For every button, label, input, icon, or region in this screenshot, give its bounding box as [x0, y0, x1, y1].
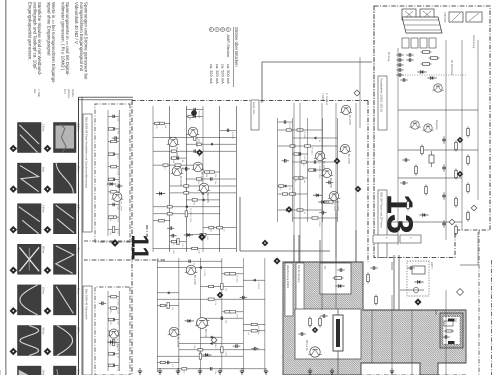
test point diamond TP-B1	[10, 145, 17, 152]
output transistor T312	[195, 318, 209, 338]
module ground G5	[390, 368, 394, 374]
tuner supply capacitor C2069	[396, 53, 403, 67]
test point diamond TP-A4	[44, 267, 51, 274]
svg-text:470: 470	[155, 125, 157, 129]
oscillogram label B6	[42, 327, 46, 335]
svg-text:22n: 22n	[116, 321, 118, 325]
svg-text:10k: 10k	[198, 250, 200, 254]
oscillogram label A5	[77, 288, 81, 294]
sync separator cluster	[278, 118, 338, 227]
svg-text:L0877: L0877	[430, 262, 433, 269]
module cavity resistor R878	[309, 317, 312, 328]
svg-text:BC 237B: BC 237B	[119, 202, 121, 211]
sync transistor T303	[339, 144, 351, 164]
IF resistor R2087	[425, 185, 428, 196]
module feed wire 2	[335, 210, 337, 262]
sub-block divider corner	[146, 225, 148, 237]
main block caption strip	[251, 100, 259, 130]
svg-text:2,2k: 2,2k	[116, 310, 118, 315]
svg-text:Videoinhalt 40 ND / V: Videoinhalt 40 ND / V	[74, 2, 79, 44]
module border dash right	[283, 374, 466, 375]
svg-text:C 2115: C 2115	[116, 298, 118, 306]
module resistor R881	[375, 295, 378, 306]
tuner filter capacitor C2070	[406, 53, 413, 62]
svg-text:voltmeter gemessen. ( Ri ≥ 10: voltmeter gemessen. ( Ri ≥ 10MΩ )	[60, 2, 65, 71]
svg-text:ZF 38,9 MHz: ZF 38,9 MHz	[450, 60, 454, 76]
svg-text:22n: 22n	[109, 310, 111, 314]
IF ladder resistor R2075	[455, 197, 458, 208]
oscillogram label B4	[42, 246, 46, 254]
tuner label Abst	[472, 35, 475, 49]
bridge currents text block	[209, 27, 239, 87]
oscillogram photo B7	[18, 366, 42, 375]
IF module shielded housing	[283, 262, 466, 375]
white diamond TP42	[457, 289, 464, 296]
svg-text:R 2114: R 2114	[116, 168, 118, 176]
svg-text:signal ohne Eingangssignal: signal ohne Eingangssignal	[46, 2, 51, 55]
module transistor T877	[305, 340, 322, 357]
video amp diamond TP35	[197, 150, 203, 156]
ground G10	[308, 368, 312, 374]
main block left border	[132, 100, 368, 102]
left column block top double border a	[79, 96, 134, 98]
left lower block frame B	[95, 287, 130, 375]
svg-text:10k: 10k	[225, 320, 227, 324]
oscillogram label A4	[77, 248, 81, 254]
oscillogram label B2	[42, 166, 46, 172]
oscillogram label A1	[77, 124, 81, 133]
caption strip right	[83, 286, 92, 375]
svg-text:1n: 1n	[257, 332, 259, 335]
video amp transistor T309	[192, 162, 205, 182]
module crossing wire f	[337, 359, 339, 375]
svg-text:10k: 10k	[116, 118, 118, 122]
module wire b	[391, 295, 393, 375]
tuner vertical wire d	[388, 221, 462, 223]
svg-text:Spannungswerte in ▭ und mit Di: Spannungswerte in ▭ und mit Digital-	[65, 2, 70, 76]
module service box A	[320, 263, 351, 294]
oscillogram photo B6	[18, 326, 42, 356]
svg-text:R 2114: R 2114	[310, 148, 312, 156]
module cavity resistor R877	[319, 317, 322, 328]
IF transistor T2062	[409, 121, 420, 129]
svg-text:BC 307B: BC 307B	[179, 176, 182, 186]
module filter FL877	[333, 309, 343, 359]
svg-text:2,5Vss: 2,5Vss	[42, 124, 46, 133]
svg-text:R 2181: R 2181	[333, 204, 335, 212]
svg-text:ca. 500 mA: ca. 500 mA	[226, 64, 231, 84]
tuner extra caps	[396, 68, 407, 82]
output transistor T311	[185, 265, 198, 285]
oscillogram photo B3	[18, 204, 42, 234]
svg-text:BC 237B: BC 237B	[348, 115, 351, 125]
tuner unit box	[402, 17, 442, 33]
tuner resistor R2062	[421, 63, 432, 66]
svg-text:0,1: 0,1	[171, 307, 173, 311]
oscillogram photo A7	[54, 366, 77, 375]
tuner diode V2060	[417, 70, 426, 74]
oscillogram photo B2	[18, 163, 42, 193]
svg-text:0,1: 0,1	[116, 156, 118, 160]
long wire IF feed	[321, 103, 323, 310]
svg-text:0,1: 0,1	[116, 219, 118, 223]
svg-text:BC 237B: BC 237B	[347, 154, 350, 164]
svg-text:C 2115: C 2115	[203, 269, 205, 277]
svg-text:2,2k: 2,2k	[116, 367, 118, 372]
test point diamond TP-B6	[10, 348, 17, 355]
IF resistor R2086	[415, 165, 418, 176]
svg-text:1k: 1k	[294, 180, 296, 183]
svg-text:22n: 22n	[197, 181, 199, 185]
tuner resistor R2060	[421, 51, 432, 54]
video amp transistor T308	[171, 166, 184, 186]
module feed wire 3	[319, 240, 321, 262]
svg-text:Werte in ▭ bei normgerechtem: Werte in ▭ bei normgerechtem Eingangs-	[51, 2, 56, 84]
svg-text:1k: 1k	[109, 219, 111, 222]
tuner caption strip	[378, 76, 387, 130]
oscillogram photo A2	[54, 163, 77, 193]
wire L bend right	[460, 232, 478, 265]
tuner block frame	[374, 6, 490, 258]
IF capacitor C2089	[402, 158, 409, 162]
long wire video feed pair a	[299, 103, 301, 262]
schematic border line outer	[78, 97, 80, 375]
svg-text:MP1-4,3A: MP1-4,3A	[305, 340, 308, 351]
svg-text:C 2163: C 2163	[257, 282, 259, 290]
module crossing wire g	[411, 310, 413, 375]
tuner resistor R2061	[429, 57, 440, 60]
IF test diamond TP13a	[457, 137, 463, 143]
alignment box 2	[400, 235, 421, 243]
oscillogram label A2	[77, 166, 81, 172]
svg-text:Bild 204 Tuner und ZF-Verst.: Bild 204 Tuner und ZF-Verst.	[380, 193, 384, 229]
left column block top double border b	[79, 99, 134, 101]
ground G1	[158, 368, 162, 374]
module feed wire 1	[355, 230, 357, 262]
interconnect wire video	[240, 197, 330, 251]
left lower cluster B	[99, 291, 120, 372]
tuner wire bus 2	[461, 40, 463, 230]
oscillogram label B7	[42, 369, 46, 375]
white diamond TP43	[354, 90, 360, 96]
tuner vertical wire a	[398, 109, 478, 111]
svg-text:BC 237B: BC 237B	[176, 337, 179, 347]
left lower cluster A	[107, 110, 124, 236]
output transistor T313	[168, 327, 181, 347]
tuner wire bus 4	[397, 48, 399, 245]
tuner vertical wire c	[398, 177, 462, 179]
output diamond TP38	[211, 337, 217, 343]
module resistor R880	[367, 273, 370, 284]
svg-text:100: 100	[116, 206, 118, 210]
video amp transistor T307	[167, 137, 180, 157]
oscillogram label B5	[42, 287, 46, 295]
sync diamond TP31	[334, 158, 340, 164]
oscillogram photo B4	[18, 244, 42, 274]
svg-text:22n: 22n	[193, 345, 195, 349]
module box D	[440, 313, 463, 348]
interconnect wire to tuner	[262, 62, 372, 103]
main block bottom border	[131, 101, 133, 375]
svg-text:470: 470	[214, 174, 216, 178]
test point diamond TP-A3	[44, 226, 51, 233]
tuner ladder diamond TP13c	[457, 171, 463, 177]
video amp transistor T310	[198, 183, 211, 203]
svg-text:BC 237B: BC 237B	[336, 201, 339, 211]
IF ladder resistor R2070	[467, 127, 470, 138]
svg-text:11: 11	[126, 235, 153, 260]
IF ladder resistor R2077	[455, 225, 458, 236]
module box D coil L878	[444, 321, 453, 326]
tuner label AFC	[450, 60, 454, 76]
module L0877 assembly	[407, 261, 433, 296]
svg-text:0,1: 0,1	[171, 364, 173, 368]
svg-text:1Vss: 1Vss	[42, 166, 46, 172]
svg-text:Kanalwähler 29301-102.01: Kanalwähler 29301-102.01	[380, 79, 384, 113]
module capacitor C880	[407, 266, 414, 270]
svg-text:22n: 22n	[109, 231, 111, 235]
svg-text:10k: 10k	[303, 180, 305, 184]
oscillogram photo B1	[18, 123, 42, 153]
ground G9	[330, 368, 334, 374]
svg-text:4,7k: 4,7k	[214, 301, 216, 306]
ground G2	[198, 368, 202, 374]
tuner label UHF	[443, 12, 446, 23]
svg-text:n. Halb-: n. Halb-	[37, 89, 40, 98]
svg-text:BDY 40: BDY 40	[204, 329, 207, 338]
oscillogram label A3	[77, 205, 81, 214]
tuner transistor T2060	[432, 84, 443, 92]
svg-text:4,7k: 4,7k	[236, 313, 238, 318]
svg-text:100: 100	[172, 250, 174, 254]
IF diode V2063	[419, 213, 428, 217]
antenna connector box X2	[402, 9, 416, 20]
oscillogram photo B5	[18, 285, 42, 315]
svg-text:1Vss: 1Vss	[42, 369, 46, 375]
oscillogram label B1	[42, 124, 46, 133]
svg-text:4,7: 4,7	[182, 370, 184, 374]
svg-text:1k: 1k	[172, 243, 174, 246]
svg-text:Oszillo-: Oszillo-	[71, 89, 74, 98]
video amp cluster	[153, 106, 236, 255]
module inner strip B	[296, 263, 304, 317]
IF resistor R2085	[421, 145, 424, 156]
sheet number 13	[380, 194, 421, 234]
svg-text:10:1: 10:1	[63, 89, 66, 94]
test point diamond TP-B3	[10, 226, 17, 233]
svg-text:C 2115: C 2115	[318, 172, 320, 180]
svg-text:R 2181: R 2181	[231, 132, 233, 140]
remote label	[321, 93, 328, 106]
module crossing wire e	[335, 262, 337, 309]
svg-text:B: B	[220, 29, 224, 31]
output diamond TP37	[217, 292, 223, 298]
module cavity capacitor C877	[320, 314, 327, 318]
tuner label AGC	[435, 120, 439, 131]
svg-text:T 2069: T 2069	[321, 93, 323, 101]
ground G3	[176, 368, 180, 374]
svg-text:0,1: 0,1	[247, 332, 249, 336]
test point diamond TP-A5	[44, 308, 51, 315]
tuner ladder diamond TP13d	[449, 219, 455, 225]
oscillogram photo A5	[54, 285, 77, 315]
svg-text:Spannungen und Ströme gemessen: Spannungen und Ströme gemessen bei	[84, 2, 89, 79]
IF ladder capacitor C2084	[442, 220, 446, 227]
svg-text:22n: 22n	[214, 181, 216, 185]
interconnect wire module left a	[298, 235, 300, 263]
svg-text:ca. 520 mA: ca. 520 mA	[220, 64, 225, 84]
svg-text:C 2163: C 2163	[318, 220, 320, 228]
box D black bar 2	[448, 341, 455, 344]
svg-text:100: 100	[177, 358, 179, 362]
svg-text:100: 100	[116, 131, 118, 135]
IF ladder capacitor C2081	[442, 136, 446, 143]
IF transistor T2063	[422, 124, 433, 132]
test point diamond TP-A6	[44, 348, 51, 355]
svg-text:68: 68	[181, 160, 183, 163]
tuner label IF	[387, 52, 390, 62]
page border dash corner	[491, 260, 493, 375]
IF ladder resistor R2072	[467, 155, 470, 166]
svg-text:4,7k: 4,7k	[181, 243, 183, 248]
test point diamond TP-B5	[10, 308, 17, 315]
svg-text:470: 470	[109, 321, 111, 325]
svg-text:1n: 1n	[116, 356, 118, 359]
caption strip left	[83, 114, 92, 232]
svg-text:0,1: 0,1	[279, 188, 281, 192]
ground G8	[264, 368, 268, 374]
interconnect wire module left b	[293, 235, 295, 263]
svg-text:UHF/VHF: UHF/VHF	[443, 12, 446, 23]
module corner diamond TP44	[274, 258, 280, 264]
svg-text:12Vss: 12Vss	[42, 287, 46, 295]
tuner vertical wire b	[398, 149, 478, 151]
module box D resistor R879	[444, 330, 454, 332]
oscillogram label B3	[42, 205, 46, 214]
sync transistor T305	[328, 191, 340, 211]
svg-text:Abstimmspg.: Abstimmspg.	[472, 35, 475, 49]
IF capacitor C2090	[400, 181, 407, 185]
long wire video feed pair b	[293, 103, 295, 262]
output diamond TP36	[199, 234, 206, 241]
module cavity C	[295, 309, 361, 359]
sub-block divider	[84, 259, 165, 261]
measurement notes text block	[28, 2, 89, 84]
output stage cluster	[157, 258, 265, 375]
svg-text:bild: bild	[33, 89, 36, 94]
svg-text:gramme: gramme	[67, 89, 70, 99]
sheet number 11	[126, 235, 153, 260]
svg-text:BC 307B: BC 307B	[329, 178, 332, 188]
IF ladder capacitor C2083	[442, 192, 446, 199]
svg-text:BC 237B: BC 237B	[206, 193, 209, 203]
svg-text:0,6Vss: 0,6Vss	[42, 205, 46, 214]
module label strip	[285, 263, 293, 316]
svg-text:R 2114: R 2114	[236, 275, 238, 283]
sub-block divider 2	[84, 240, 131, 242]
oscillogram strip header	[33, 89, 74, 99]
module cavity diamond TP40	[312, 327, 318, 333]
svg-text:oszillograph und Tastkopf ca.: oszillograph und Tastkopf ca. 10pF	[32, 2, 37, 70]
module wire c	[400, 289, 424, 291]
IF coil L2064	[429, 151, 434, 167]
between-block diamond TP39	[112, 240, 119, 247]
box D black bar 1	[448, 319, 455, 322]
left lower block frame A	[95, 104, 130, 242]
module diamond TP41	[415, 299, 421, 305]
svg-text:4,7: 4,7	[184, 188, 186, 192]
svg-text:10k: 10k	[172, 160, 174, 164]
svg-text:BC 238B: BC 238B	[175, 147, 178, 157]
svg-text:1n: 1n	[288, 188, 290, 191]
video amp screw point	[191, 110, 196, 115]
svg-text:30Vss: 30Vss	[42, 327, 46, 335]
page border dash right	[478, 230, 480, 375]
video amp transistor T306	[187, 127, 200, 147]
page fold line	[5, 0, 7, 375]
sync transistor T304	[321, 168, 333, 188]
sync diamond TP33	[286, 207, 292, 213]
interconnect wire V06	[398, 255, 400, 310]
ground G4	[240, 368, 244, 374]
sync transistor T302	[314, 151, 326, 171]
svg-text:4,7: 4,7	[302, 164, 304, 168]
module long wire i	[445, 290, 447, 375]
svg-text:C: C	[215, 28, 219, 30]
svg-text:Eingangskapazität gemessen.: Eingangskapazität gemessen.	[28, 2, 33, 61]
svg-text:100: 100	[205, 174, 207, 178]
tuner block lower parallel border	[373, 6, 375, 258]
IF ladder resistor R2074	[467, 183, 470, 194]
test point diamond TP-A1	[44, 145, 51, 152]
sheet 13 caption strip	[378, 190, 387, 258]
svg-text:1k: 1k	[109, 344, 111, 347]
schematic border line inner	[81, 97, 83, 375]
tuner AGC dotted line	[396, 74, 466, 76]
svg-text:0,1: 0,1	[214, 345, 216, 349]
oscillogram photo A4	[54, 244, 77, 274]
tuner wire bus 1	[477, 40, 479, 200]
svg-text:2,2k: 2,2k	[225, 351, 227, 356]
svg-text:0,1: 0,1	[225, 288, 227, 292]
AFC connector box	[466, 12, 482, 22]
svg-text:4,7: 4,7	[164, 167, 166, 171]
svg-text:100: 100	[206, 236, 208, 240]
svg-text:10k: 10k	[164, 125, 166, 129]
IF connector box row	[402, 38, 436, 48]
module wire a	[391, 262, 393, 270]
test point diamond TP-A2	[44, 186, 51, 193]
IF ladder resistor R2073	[455, 169, 458, 180]
svg-text:Bild 2069-45 Fbas-Verstärker: Bild 2069-45 Fbas-Verstärker und Synchro…	[85, 117, 89, 188]
IF ladder capacitor C2082	[442, 164, 446, 171]
long wire supply rail	[355, 103, 357, 262]
long wire AGC	[335, 103, 337, 258]
svg-text:ZF-Ausg.: ZF-Ausg.	[387, 52, 390, 62]
svg-text:D: D	[226, 28, 230, 30]
svg-text:ca. 320 mA: ca. 320 mA	[209, 64, 214, 84]
oscillogram photo A1	[54, 123, 77, 153]
svg-text:normgerechtem Eingangssignal m: normgerechtem Eingangssignal mit	[79, 2, 84, 72]
svg-text:BC 237B: BC 237B	[193, 275, 196, 285]
svg-text:BC 237B: BC 237B	[200, 172, 203, 182]
svg-text:22n: 22n	[214, 370, 216, 374]
svg-text:R 2114: R 2114	[198, 111, 200, 119]
svg-text:m. Fernbed.: m. Fernbed.	[325, 93, 328, 106]
sync diamond TP32	[355, 186, 361, 192]
oscillogram photo A3	[54, 204, 77, 234]
antenna connector box X1	[420, 9, 434, 20]
